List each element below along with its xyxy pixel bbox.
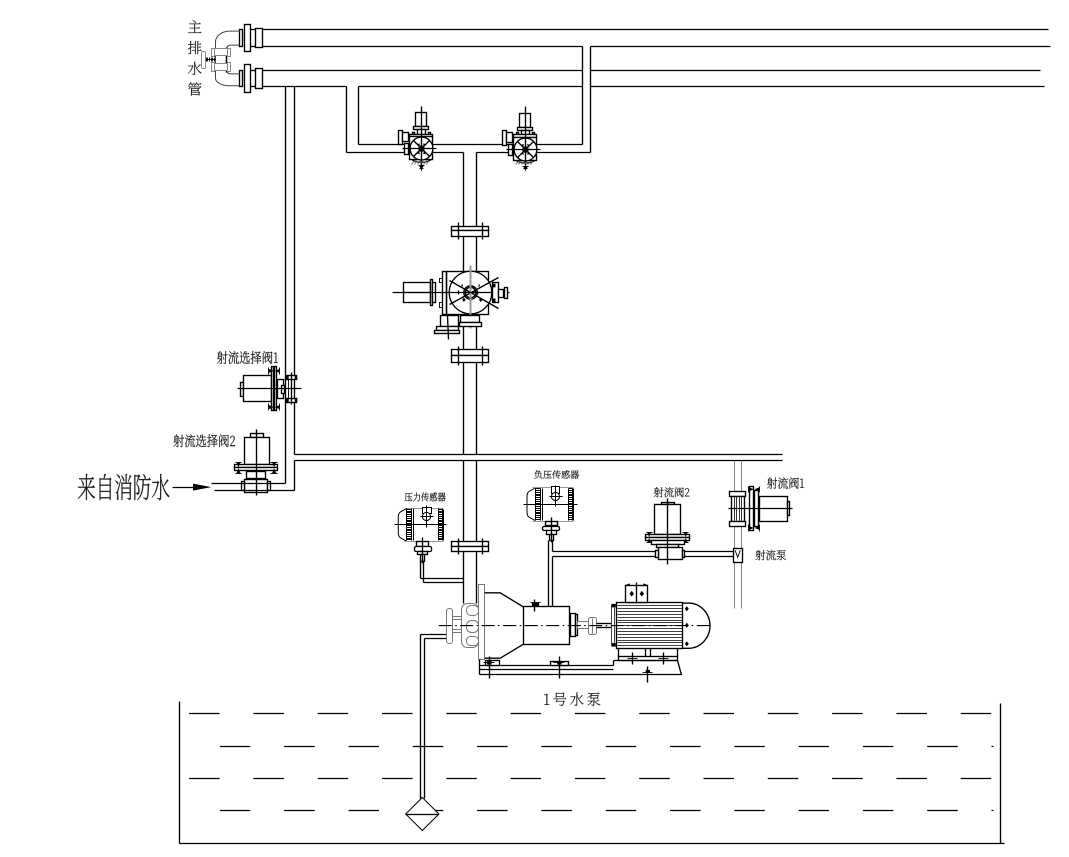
pipe: branch pipe to jet pump area	[295, 454, 783, 456]
label: 负压传感器 (negative pressure sensor)	[534, 470, 579, 479]
label: 射流泵 (jet pump)	[756, 550, 786, 561]
pipe: negative pressure sensor line to pump	[548, 541, 550, 607]
pipe: main drain pipe 1 (top run)	[263, 29, 1049, 31]
motor: electric motor body	[611, 606, 613, 645]
strainer: foot valve diamond	[406, 798, 439, 831]
tank: water tank walls	[179, 702, 181, 844]
valve: jet selection valve 2 (射流选择阀2)	[251, 434, 264, 438]
pipe: jet small pipe from sensor line to jet pump	[553, 551, 734, 553]
valve: bypass hand valve handle	[202, 52, 206, 69]
flange: central pipe flange F1	[452, 227, 489, 231]
pipe: pump suction small pipe	[421, 634, 447, 636]
pipe: riser to pipe 1	[582, 47, 584, 145]
pump: casing top bolt	[532, 603, 539, 607]
flange: pipe 2 left end flange	[251, 70, 256, 72]
label: 压力传感器 (pressure sensor)	[405, 492, 446, 501]
pipe: central discharge pipe segments	[463, 153, 465, 227]
pipe: U-bend return elbow (main drain header)	[215, 31, 239, 86]
pipe: pressure sensor sensing line	[420, 561, 422, 579]
sensor: negative pressure transmitter (负压传感器)	[527, 488, 535, 521]
flange: pipe 1 left end flange	[251, 29, 256, 31]
pipe: fire-water vertical pipe A	[285, 87, 287, 484]
pump: shaft and coupling	[571, 614, 576, 637]
label: 射流选择阀2	[173, 434, 235, 447]
flange: central pipe flange F2	[452, 350, 489, 356]
motor: feet and pedestal	[618, 649, 620, 657]
flange: upper bypass flange (grey)	[213, 49, 229, 56]
pipe: main drain pipe 2 (second run)	[263, 70, 583, 72]
valve: jet valve 2 (射流阀2)	[662, 503, 675, 505]
valve: jet pump check valve box	[734, 549, 743, 563]
label: 射流阀2	[654, 487, 689, 497]
flange: lower bypass flange (grey)	[213, 64, 229, 71]
valve: motorized valve MV2 on valve run	[520, 114, 531, 128]
pipe: jet pump vertical line	[734, 461, 736, 549]
valve: jet selection valve 1 (射流选择阀1)	[241, 383, 244, 397]
pipe: valve run horizontal	[359, 144, 583, 146]
label: 来自消防水 (from fire water)	[78, 474, 169, 500]
label: 射流阀1	[767, 477, 804, 489]
motor: terminal box	[626, 586, 648, 603]
valve: large motorized 4-way valve on central pipe	[404, 283, 431, 303]
flange: central pipe flange F3	[452, 542, 489, 547]
valve: jet valve 1 (射流阀1)	[730, 492, 746, 497]
pump: baseplate	[480, 665, 614, 667]
valve: motorized valve MV1 on valve run	[416, 113, 427, 127]
pipe: drop from pipe2 to valve run	[346, 87, 348, 153]
pump: water pump casing and inlet	[447, 609, 453, 644]
sensor: pressure transmitter (压力传感器)	[398, 509, 406, 542]
centerline: pump shaft centerline	[439, 625, 713, 627]
arrow: fire water flow arrow	[173, 487, 197, 489]
label: 主排水管 (main drain pipe)	[188, 20, 202, 95]
label: 1号水泵 (No.1 water pump)	[544, 692, 600, 705]
label: 射流选择阀1	[217, 351, 278, 364]
pipe: fire water inlet pipe	[212, 483, 286, 485]
tank: water level dashes	[189, 713, 993, 715]
